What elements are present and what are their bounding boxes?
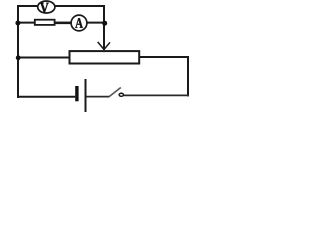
switch contact circle <box>119 93 123 96</box>
rheostat slider arrow <box>98 42 110 50</box>
wire rheostat left lead <box>17 57 69 59</box>
wire left rail (top corner to bottom corner) <box>17 5 19 98</box>
node junction left rail / resistor row <box>15 21 20 26</box>
battery negative plate (short thick bar) <box>75 86 78 101</box>
wire resistor to ammeter (thick segment) <box>55 22 72 24</box>
wire resistor-ammeter row <box>17 22 105 24</box>
node junction left rail / rheostat lead <box>16 55 21 60</box>
wire switch to right rail <box>124 94 189 96</box>
wire battery to switch pivot <box>87 96 110 98</box>
wire top (voltmeter branch) <box>17 5 105 7</box>
wire right rail (down to bottom loop) <box>187 56 189 96</box>
wire rheostat right lead <box>140 56 189 58</box>
voltmeter V (circle with letter V) <box>38 1 55 13</box>
resistor R (rectangular box) <box>35 20 55 25</box>
battery positive plate (long thin bar) <box>85 79 87 112</box>
wire right upper rail (down to rheostat slider) <box>103 5 105 50</box>
wire bottom left (to battery) <box>17 96 75 98</box>
switch blade (open) <box>109 88 121 97</box>
ammeter A (circle with letter A) <box>71 15 87 31</box>
node junction right rail / ammeter row <box>102 21 107 26</box>
rheostat body (long rectangular box) <box>70 51 140 63</box>
